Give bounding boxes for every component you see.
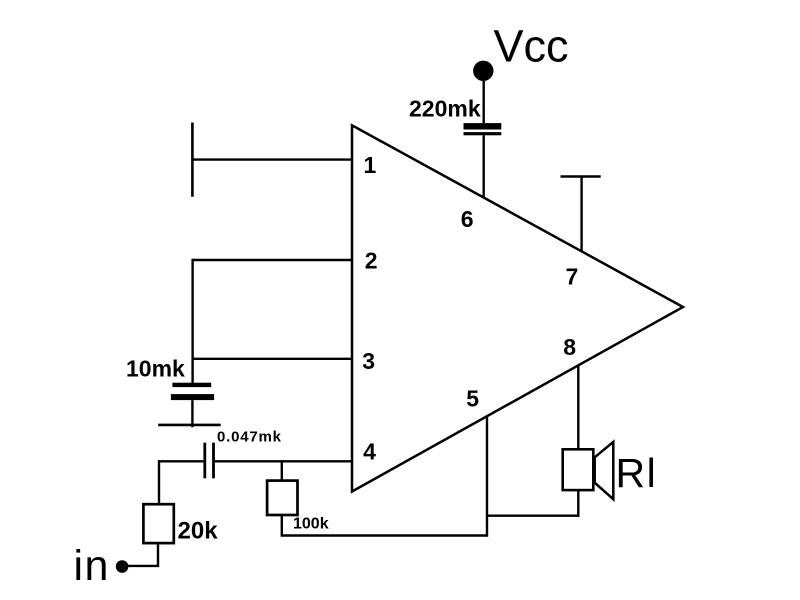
svg-text:7: 7 — [566, 263, 579, 289]
pin 7 wire — [580, 177, 582, 251]
resistor R2 100k body — [267, 481, 297, 515]
capacitor C2 10mk top plate — [172, 383, 211, 387]
Vcc terminal dot — [473, 61, 493, 81]
pin 3 wire — [193, 358, 352, 360]
speaker LS1 body — [563, 449, 594, 490]
svg-text:20k: 20k — [178, 518, 219, 545]
pin 2 wire — [193, 259, 352, 261]
svg-text:Vcc: Vcc — [494, 21, 569, 72]
input terminal dot — [116, 560, 129, 573]
wire C2 to ground — [191, 400, 193, 427]
wire pin5 node to speaker — [487, 515, 579, 517]
wire R2 bottom to node — [282, 515, 487, 536]
svg-text:220mk: 220mk — [409, 96, 481, 122]
pin 7 open terminal bar — [561, 175, 601, 178]
svg-text:Rl: Rl — [616, 450, 658, 496]
svg-text:6: 6 — [461, 206, 474, 232]
pin 5 wire — [486, 417, 488, 537]
capacitor C1 220mk top plate — [464, 123, 502, 129]
svg-text:10mk: 10mk — [126, 356, 185, 382]
svg-text:4: 4 — [363, 439, 376, 465]
wire to resistor R1 — [158, 460, 160, 504]
svg-text:in: in — [74, 542, 110, 590]
wire C1 to pin 6 — [483, 135, 485, 197]
ground bar — [158, 424, 221, 427]
pin 4 wire left segment — [158, 460, 203, 462]
capacitor C2 10mk bottom plate — [171, 394, 214, 400]
svg-text:8: 8 — [563, 334, 576, 360]
wire to resistor R2 — [281, 460, 283, 480]
pin 1 wire — [192, 158, 352, 160]
wire Vcc to C1 — [483, 78, 485, 123]
svg-text:1: 1 — [364, 152, 377, 178]
wire R1 to input dot — [127, 543, 158, 566]
svg-text:5: 5 — [466, 385, 479, 411]
svg-text:0.047mk: 0.047mk — [217, 429, 282, 446]
wire node pin2 to pin3 — [191, 259, 193, 384]
pin 1 open terminal — [191, 123, 194, 197]
pin 4 wire right segment — [215, 460, 352, 462]
capacitor C3 0.047mk left plate — [203, 443, 206, 479]
resistor R1 20k body — [143, 504, 173, 543]
capacitor C3 0.047mk right plate — [212, 443, 215, 479]
op-amp U1 — [352, 125, 683, 491]
speaker LS1 cone — [595, 442, 614, 499]
pin 8 wire — [577, 366, 579, 450]
svg-text:100k: 100k — [293, 516, 329, 533]
capacitor C1 220mk bottom plate — [464, 132, 502, 135]
speaker bottom wire — [577, 490, 579, 517]
svg-text:3: 3 — [362, 348, 375, 374]
svg-text:2: 2 — [365, 248, 378, 274]
